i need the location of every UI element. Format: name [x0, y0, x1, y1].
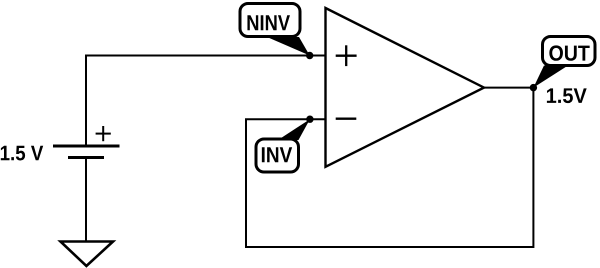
- label callout OUT: [533, 37, 595, 88]
- NINV callout pointer: [267, 37, 310, 56]
- battery plus polarity mark: [96, 126, 111, 141]
- wire feedback loop from inverting input to output node: [246, 88, 533, 247]
- battery value label 1.5 V: [1, 146, 43, 161]
- op-amp U1: [326, 8, 485, 167]
- wire op-amp output: [483, 87, 533, 89]
- output voltage label 1.5V: [547, 88, 587, 103]
- node NINV junction: [306, 52, 313, 59]
- wire battery- to ground: [85, 158, 87, 242]
- OUT callout pointer: [533, 66, 568, 88]
- ground: [61, 242, 114, 267]
- node OUT junction: [530, 84, 537, 91]
- OUT callout text: [549, 45, 589, 60]
- battery V1 positive plate: [53, 145, 120, 148]
- node INV junction: [306, 116, 313, 123]
- INV callout box: [256, 139, 299, 172]
- NINV callout box: [240, 4, 300, 37]
- battery V1 negative plate: [68, 156, 104, 159]
- wire battery+ to noninverting input: [86, 56, 325, 147]
- op-amp minus input marker: [336, 118, 357, 120]
- INV callout text: [262, 147, 292, 162]
- INV callout pointer: [278, 119, 310, 140]
- op-amp plus input marker: [336, 45, 357, 66]
- OUT callout box: [543, 37, 596, 66]
- label callout INV: [256, 119, 310, 172]
- label callout NINV: [240, 4, 310, 56]
- NINV callout text: [247, 15, 290, 30]
